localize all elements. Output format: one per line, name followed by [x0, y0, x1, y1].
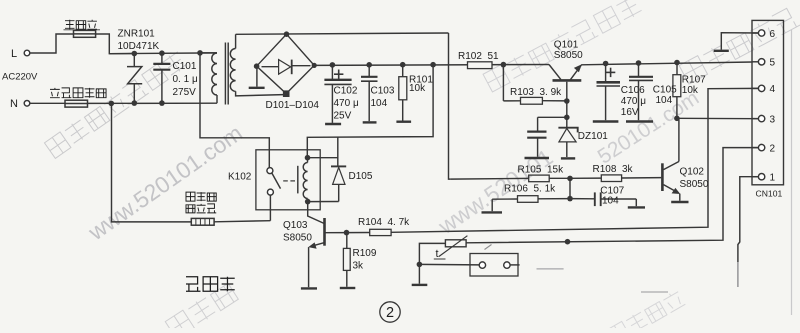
- svg-text:D105: D105: [349, 171, 373, 182]
- heating element 发热盘电热丝: [191, 218, 214, 225]
- wire L rail: [109, 52, 217, 55]
- fuse F1: [74, 30, 96, 37]
- svg-text:275V: 275V: [173, 87, 197, 98]
- node heater branch: [109, 101, 115, 107]
- wire thermistor left: [419, 243, 445, 264]
- wire L to fuse: [30, 34, 74, 53]
- wire to switch: [419, 263, 479, 266]
- transistor Q101 collector: [549, 65, 561, 80]
- ground bridge negative: [256, 69, 258, 87]
- wire contact lower: [269, 195, 271, 221]
- node ZNR bottom: [132, 100, 138, 106]
- ground switch branch: [418, 264, 420, 283]
- svg-text:470 μ: 470 μ: [621, 96, 646, 107]
- svg-text:4: 4: [770, 84, 776, 95]
- capacitor C106: [605, 64, 607, 82]
- transistor Q101 bar: [553, 79, 582, 82]
- node thermistor line: [565, 239, 571, 245]
- wire relay coil feed: [307, 65, 433, 158]
- node relay feed: [430, 62, 436, 68]
- wire R104 left: [347, 232, 370, 234]
- node C105: [636, 60, 642, 66]
- svg-text:10D471K: 10D471K: [118, 41, 160, 52]
- svg-text:AC220V: AC220V: [2, 72, 38, 83]
- ground DZ101: [561, 157, 575, 159]
- label 电源板: [186, 277, 201, 292]
- pin 3 CN101: [752, 118, 758, 120]
- wire pin1: [738, 177, 758, 262]
- svg-text:K102: K102: [228, 172, 252, 183]
- wire filter cap stub: [538, 116, 567, 118]
- watermark bottom-left cjk: [165, 282, 238, 333]
- svg-text:C103: C103: [371, 86, 395, 97]
- node C101 top: [159, 50, 165, 56]
- wire R103 right: [542, 100, 566, 102]
- node bridge top: [284, 31, 290, 37]
- transistor Q102 emitter: [664, 185, 679, 193]
- wire to R105: [450, 177, 529, 180]
- wire R104 to pin4: [391, 88, 758, 232]
- label 发热盘: [186, 192, 195, 201]
- ground Q103: [301, 287, 317, 289]
- svg-text:N: N: [10, 98, 18, 110]
- svg-text:470 μ: 470 μ: [334, 98, 359, 109]
- label 温度保险丝: [50, 88, 60, 98]
- wire N rail: [88, 102, 218, 104]
- svg-text:CN101: CN101: [756, 189, 783, 199]
- diode D105: [331, 165, 346, 167]
- wire Q103 collector: [308, 202, 325, 224]
- wire heater right: [214, 221, 270, 222]
- svg-text:0. 1 μ: 0. 1 μ: [173, 74, 198, 85]
- node coil top: [305, 155, 311, 161]
- svg-text:L: L: [11, 48, 17, 60]
- capacitor C102 polarity +: [334, 73, 343, 75]
- wire R105 right: [549, 177, 570, 179]
- wire N to temp-fuse: [30, 102, 65, 104]
- pin 6 CN101: [752, 32, 758, 34]
- wire Q102 emitter: [679, 194, 681, 201]
- varistor ZNR101: [133, 54, 135, 67]
- wire Q101 base: [566, 82, 568, 118]
- terminal L: [24, 50, 30, 56]
- relay link dashes: [283, 180, 288, 182]
- wire D105 top: [337, 137, 339, 166]
- wire fuse to rail: [96, 34, 135, 54]
- svg-text:R105 15k: R105 15k: [518, 165, 565, 176]
- node bridge bottom: [283, 90, 290, 97]
- resistor R107: [676, 63, 678, 75]
- wire Q102 collector: [678, 118, 680, 161]
- ground base filter: [525, 157, 550, 159]
- svg-text:R109: R109: [353, 248, 377, 259]
- pin 5 CN101: [752, 61, 758, 63]
- svg-text:R104 4. 7k: R104 4. 7k: [358, 217, 410, 228]
- node switch branch: [417, 262, 423, 268]
- thermistor RT: [445, 240, 466, 247]
- wire coil top: [307, 158, 309, 163]
- capacitor C106 polarity +: [606, 71, 615, 73]
- switch contact right: [504, 262, 510, 268]
- transformer core: [224, 43, 226, 105]
- pin 4 CN101: [752, 87, 758, 89]
- wire through fuse F1: [74, 33, 96, 35]
- svg-text:25V: 25V: [334, 111, 352, 122]
- ground C102: [325, 123, 341, 125]
- svg-text:10k: 10k: [409, 83, 426, 94]
- wire coil-D105 link: [308, 157, 338, 159]
- resistor R101: [402, 65, 404, 77]
- wire coil-D105 bottom link: [308, 201, 339, 203]
- relay K102 box: [256, 150, 320, 210]
- watermark mid www: [433, 144, 558, 240]
- wire heater left: [112, 103, 192, 221]
- wire coil bottom: [307, 199, 309, 202]
- wire pin2 drop: [466, 148, 758, 243]
- switch contact left: [479, 262, 485, 268]
- svg-text:2: 2: [770, 143, 776, 154]
- terminal N: [24, 101, 30, 107]
- label 电热丝: [186, 205, 195, 213]
- watermark right www: [594, 86, 703, 168]
- transistor Q103 bar: [323, 218, 326, 246]
- node C103: [366, 62, 372, 68]
- page edge line: [791, 30, 793, 315]
- wire AC sense drop: [449, 33, 451, 179]
- svg-text:6: 6: [770, 29, 776, 40]
- svg-text:104: 104: [656, 95, 673, 106]
- wire Q103 base: [325, 232, 347, 234]
- connector CN101 box: [752, 20, 784, 184]
- relay core bar: [297, 166, 299, 194]
- node C101 bottom: [159, 100, 165, 106]
- ground R109: [340, 287, 356, 289]
- svg-text:C102: C102: [334, 86, 358, 97]
- node R107: [674, 60, 680, 66]
- svg-text:S8050: S8050: [554, 50, 583, 61]
- node C106: [603, 61, 609, 67]
- node R107 bottom: [674, 116, 680, 122]
- pin 2 CN101: [752, 147, 758, 149]
- svg-text:D101–D104: D101–D104: [266, 100, 320, 111]
- svg-text:R107: R107: [682, 75, 706, 86]
- wire pin3: [677, 117, 758, 119]
- relay contact upper: [267, 168, 273, 174]
- watermark left www.520101.com: [83, 120, 247, 246]
- svg-text:R106 5. 1k: R106 5. 1k: [504, 183, 556, 194]
- svg-text:10k: 10k: [682, 85, 699, 96]
- ground pin6: [714, 50, 729, 52]
- capacitor C103: [368, 65, 370, 77]
- svg-text:R103 3. 9k: R103 3. 9k: [510, 87, 562, 98]
- figure number 2: [380, 302, 400, 322]
- resistor R103: [521, 97, 543, 104]
- wire faded switch-right: [537, 268, 564, 270]
- node R106 C107: [567, 196, 573, 202]
- watermark bottom-right cjk: [607, 290, 685, 333]
- svg-text:t: t: [436, 248, 439, 260]
- wire output rail: [581, 62, 752, 65]
- ground C105: [626, 120, 653, 122]
- node coil bottom: [305, 199, 311, 205]
- node zener tap: [564, 115, 570, 121]
- wire secondary bottom: [236, 91, 284, 96]
- node C102: [330, 62, 336, 68]
- transistor Q102 bar: [661, 163, 664, 191]
- ground R106: [491, 199, 493, 211]
- node R103 branch: [501, 62, 507, 68]
- capacitor C105: [638, 63, 640, 76]
- watermark top-right cjk b: [679, 6, 800, 84]
- relay contact lower: [267, 189, 273, 195]
- svg-text:104: 104: [602, 196, 619, 207]
- pin 1 CN101: [752, 176, 758, 178]
- svg-text:2: 2: [386, 305, 394, 321]
- wire pin6 ground: [721, 33, 758, 50]
- svg-text:104: 104: [371, 98, 388, 109]
- resistor R102: [468, 62, 493, 69]
- ground R101: [396, 120, 411, 122]
- wire secondary top: [235, 34, 237, 48]
- capacitor C102: [331, 65, 333, 79]
- svg-text:S8050: S8050: [283, 233, 312, 244]
- svg-text:C101: C101: [173, 61, 197, 72]
- node Q101 base: [564, 98, 570, 104]
- wire switch stub: [510, 264, 519, 266]
- node L branch to relay contact: [197, 50, 203, 56]
- ground C107: [635, 199, 637, 206]
- svg-text:16V: 16V: [621, 107, 639, 118]
- wire through fuse F2: [65, 103, 88, 105]
- node bridge right: [312, 63, 317, 68]
- wire rectified rail: [314, 64, 549, 67]
- svg-text:Q103: Q103: [283, 220, 308, 231]
- transformer secondary winding: [230, 49, 235, 92]
- watermark top-right cjk a: [483, 0, 642, 92]
- wire Q103 emitter: [308, 247, 310, 287]
- relay coil: [303, 163, 307, 199]
- resistor R108: [570, 177, 601, 179]
- svg-text:R102 51: R102 51: [458, 51, 499, 62]
- ground C106: [593, 120, 619, 122]
- wire pin1 faded tail: [737, 262, 739, 287]
- wire faded lower-right: [641, 291, 668, 293]
- wire primary bottom: [216, 95, 218, 103]
- bridge inner diode: [262, 66, 279, 68]
- capacitor C101: [161, 53, 163, 63]
- resistor R109: [346, 233, 348, 249]
- ground Q102: [671, 201, 688, 203]
- svg-text:DZ101: DZ101: [578, 131, 608, 142]
- transistor Q101 emitter: [570, 65, 581, 80]
- node R101: [400, 62, 406, 68]
- label 保险丝: [65, 20, 75, 30]
- svg-text:S8050: S8050: [680, 179, 709, 190]
- node Q103 base: [344, 230, 350, 236]
- wire L branch to relay contact: [200, 53, 269, 168]
- resistor R106: [538, 198, 570, 200]
- wire R103 vert: [502, 65, 504, 101]
- svg-text:C106: C106: [621, 85, 645, 96]
- wire R103 left: [503, 100, 520, 102]
- capacitor base filter: [537, 117, 539, 131]
- node R105 R108: [567, 176, 573, 182]
- transistor Q103 emitter: [311, 243, 325, 247]
- wire divider link: [569, 178, 571, 198]
- svg-text:1: 1: [770, 173, 776, 184]
- svg-text:3: 3: [770, 114, 776, 125]
- node bridge left: [254, 63, 260, 69]
- node ZNR top: [132, 51, 138, 57]
- zener DZ101: [566, 117, 568, 127]
- capacitor C107: [570, 198, 594, 200]
- svg-text:5: 5: [770, 58, 776, 69]
- resistor R104: [370, 229, 391, 235]
- transformer primary winding: [212, 53, 217, 95]
- svg-text:3k: 3k: [353, 261, 365, 272]
- svg-text:ZNR101: ZNR101: [118, 29, 156, 40]
- fuse F2 temperature: [65, 100, 88, 107]
- bridge D101-D104 diamond: [257, 34, 315, 93]
- relay contact arm: [272, 173, 281, 189]
- svg-text:R108 3k: R108 3k: [593, 164, 634, 175]
- thermal switch box: [470, 254, 518, 277]
- svg-text:Q102: Q102: [680, 167, 705, 178]
- watermark top-left: [44, 50, 187, 158]
- ground C103: [363, 121, 377, 123]
- stray tick mark: [485, 245, 492, 250]
- wire primary top: [200, 52, 217, 54]
- wire AC top rail: [236, 33, 449, 34]
- resistor R105: [529, 175, 550, 182]
